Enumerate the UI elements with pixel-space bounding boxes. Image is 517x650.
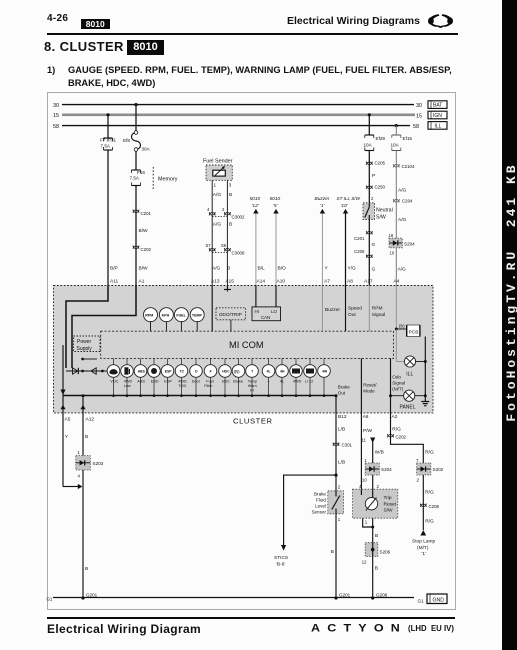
PCB box [407,325,420,337]
svg-text:ESP: ESP [164,380,172,384]
svg-text:L/B: L/B [338,460,345,466]
cluster box [54,286,434,413]
svg-text:A4: A4 [394,279,400,285]
warning lamp ABS [134,358,147,397]
svg-text:LI 12: LI 12 [305,380,313,384]
svg-text:(M/T): (M/T) [392,387,403,392]
svg-text:'B-6': 'B-6' [276,562,285,568]
svg-text:Memory: Memory [158,177,178,183]
wire A4 node b [395,286,407,331]
svg-text:C202: C202 [141,247,152,252]
svg-text:(M/T): (M/T) [417,545,429,551]
ref arrow 5010 '12' [250,196,266,286]
svg-text:P: P [372,173,375,179]
svg-text:B: B [85,434,88,440]
svg-text:5010: 5010 [270,196,281,202]
svg-text:Odo: Odo [392,375,401,380]
svg-text:CLUSTER: CLUSTER [233,417,273,426]
pin A5 [63,413,71,487]
wire A2 internal [389,358,405,413]
svg-text:G: G [372,242,376,248]
svg-text:1: 1 [214,183,217,188]
lamp ILL [396,329,425,378]
header page number [47,13,68,24]
description line 1 [47,65,55,75]
svg-text:R/G: R/G [392,427,401,433]
splice S204 lower [365,463,392,475]
svg-text:IGN: IGN [433,113,442,119]
svg-text:A/G: A/G [212,266,221,272]
svg-text:A12: A12 [86,417,95,423]
wire A11 internal [66,286,108,369]
wire from rail 30 to breaker Ef8 [134,103,137,133]
svg-text:B: B [229,222,232,228]
connector C2104 [393,164,415,169]
rail 58 [53,124,419,130]
svg-text:Supply: Supply [77,346,93,352]
svg-text:Out: Out [338,391,346,396]
svg-text:A14: A14 [257,279,266,285]
svg-text:Signal: Signal [392,381,405,386]
branch to STICS [274,474,338,568]
svg-text:Level: Level [315,504,326,509]
svg-text:'1': '1' [422,551,427,557]
regulator diode row [66,368,107,374]
svg-text:HDC: HDC [222,370,230,374]
warning lamp 4WD [290,358,303,397]
connector C204 [393,199,413,204]
svg-text:Sensor: Sensor [311,510,326,515]
svg-text:Y/G: Y/G [348,266,357,272]
svg-text:Temp: Temp [248,380,257,384]
power supply box [74,336,101,352]
svg-text:S202: S202 [433,467,444,472]
svg-text:7.5A: 7.5A [130,176,140,181]
svg-text:HDC: HDC [222,380,230,384]
svg-text:ABS: ABS [137,380,145,384]
svg-text:PCB: PCB [409,329,419,335]
svg-text:G1: G1 [418,598,425,603]
svg-text:B: B [375,566,378,572]
wire A6 internal [361,358,377,413]
svg-text:R/G: R/G [425,490,434,496]
svg-text:P/W: P/W [363,428,373,434]
splice S202 [417,463,444,475]
svg-text:R/G: R/G [425,450,434,456]
svg-text:18: 18 [389,233,394,238]
svg-text:7.5A: 7.5A [101,144,111,149]
svg-text:RPM: RPM [145,314,153,318]
svg-text:ST ILL S/W: ST ILL S/W [337,196,361,201]
svg-text:A/G: A/G [398,188,407,194]
ground G201 right [334,593,350,600]
svg-text:((!)): ((!)) [234,370,240,374]
svg-text:G201: G201 [86,593,98,598]
svg-text:C2104: C2104 [402,164,415,169]
svg-text:Reset: Reset [384,501,397,507]
svg-text:Buzzer: Buzzer [325,307,340,313]
svg-text:58: 58 [53,124,59,130]
header code box 8010 [81,19,110,30]
pin B12 [336,413,347,475]
CLUSTER label [233,417,273,426]
svg-text:BAT: BAT [433,103,442,109]
section title [44,39,124,54]
svg-text:ILL: ILL [435,123,442,129]
fuse Ef29 10A [364,135,386,151]
svg-text:C206: C206 [354,249,365,254]
svg-text:A6: A6 [363,414,369,420]
svg-text:CAN: CAN [261,315,270,320]
svg-text:Filter: Filter [204,384,213,388]
fuel sender box [206,165,232,180]
svg-text:GND: GND [433,597,445,603]
power supply stub [81,358,97,361]
svg-text:Brake: Brake [314,492,326,497]
svg-text:A2: A2 [392,414,398,420]
warning lamp VDC [107,358,120,397]
watermark strip [502,0,517,650]
connector C206 [354,249,372,258]
svg-text:Neutral: Neutral [376,208,393,214]
connector C205 [366,161,385,166]
svg-text:FUEL: FUEL [176,314,186,318]
svg-text:'12': '12' [252,203,260,209]
connector C3008 [206,243,245,256]
svg-text:A10: A10 [277,279,286,285]
wire B/W to pin A1 [136,186,148,286]
svg-text:C201: C201 [354,236,365,241]
svg-text:B/W: B/W [139,228,149,234]
wire from rail 15 to fuse F7 [106,113,109,137]
ground bus [47,596,415,601]
wire A2 to S202 [391,440,434,463]
wire neutral to cluster A17 [364,220,376,286]
warning lamp EBD [148,358,161,397]
BAT box [428,101,447,109]
svg-text:VDC: VDC [110,380,118,384]
wire A8 speed out internal [346,286,363,332]
svg-text:A5: A5 [65,417,71,423]
svg-text:15: 15 [416,113,422,119]
svg-text:S204: S204 [404,242,415,247]
svg-text:Door: Door [192,380,201,384]
connector C250 [366,185,385,190]
svg-text:Stop Lamp: Stop Lamp [412,539,436,545]
svg-text:30: 30 [416,103,422,109]
description line 2 [68,78,155,88]
svg-text:MI COM: MI COM [229,340,264,350]
ref arrow Buzzer '1' [315,196,331,286]
svg-text:B12: B12 [338,414,347,420]
svg-text:Ef15: Ef15 [403,136,413,141]
wire S204b to trip switch [362,475,373,489]
svg-text:4W: 4W [322,370,328,374]
svg-text:Mode: Mode [363,389,375,394]
connector C301 [333,443,353,448]
fuse F16 7.5A [130,170,146,186]
wire rail15 to fuse Ef29 [368,113,371,135]
svg-text:B: B [331,549,334,555]
svg-text:A7: A7 [324,279,330,285]
rail 15 [53,113,422,119]
wire A13 internal [211,286,213,332]
wire Ef29 to neutral switch [369,151,375,203]
svg-text:C208: C208 [429,504,440,509]
wire A17 rpm signal internal [369,286,385,332]
svg-text:G201: G201 [339,593,351,598]
svg-text:4L: 4L [280,380,284,384]
footer rule [47,617,455,619]
connector C201 lower [354,231,372,241]
wire brake sensor to ground [331,514,341,598]
ground G201 left [81,593,97,600]
connector C202 lower [388,434,407,440]
watermark text [505,162,517,422]
ODO TRIP box [216,308,246,331]
svg-text:ILL: ILL [406,372,413,378]
connector C201 on A1 wire [133,210,152,217]
svg-text:A/G: A/G [213,192,222,198]
svg-text:B: B [85,566,88,572]
svg-text:TEMP: TEMP [192,314,203,318]
svg-text:R/G: R/G [425,519,434,525]
svg-text:Fluid: Fluid [316,498,326,503]
ref arrow 11 into S204b [361,438,383,464]
svg-text:B/W: B/W [139,266,149,272]
svg-text:B: B [375,533,378,539]
svg-text:Warn: Warn [248,384,257,388]
svg-text:4H: 4H [280,370,285,374]
ssangyong logo [428,13,453,30]
svg-text:A13: A13 [211,279,220,285]
pin A2 [391,413,402,440]
svg-text:4WD: 4WD [178,380,187,384]
svg-text:4L: 4L [267,370,271,374]
svg-text:TC: TC [180,370,185,374]
connector C3002 [207,207,245,228]
svg-text:Fuel: Fuel [206,380,214,384]
circuit breaker Ef8 30A [123,131,151,152]
svg-text:RPM: RPM [372,306,383,312]
lamp bus [63,395,336,397]
gauge KPH [159,308,173,332]
svg-text:B/P: B/P [110,266,118,272]
svg-text:10A: 10A [391,143,400,148]
svg-text:S/W: S/W [376,215,386,221]
MICOM box [101,331,394,358]
svg-text:A/G: A/G [213,222,222,228]
svg-text:PANEL: PANEL [400,405,416,411]
svg-text:Low: Low [124,384,131,388]
svg-text:W/B: W/B [375,450,384,456]
warning lamp 4WD TOD [175,358,188,397]
ground G208 [371,593,388,600]
brake fluid level sensor [311,475,343,514]
svg-text:58: 58 [413,124,419,130]
gauge TEMP [190,308,204,332]
lamp PANEL [391,390,426,410]
warning lamp Door [190,358,203,397]
fuel sender pins [212,180,232,285]
ILL box [428,122,447,130]
pin A12 [78,413,95,456]
warning lamp 4WD LOW [121,358,134,397]
svg-text:S204: S204 [381,467,392,472]
diagram frame [48,93,456,610]
svg-text:Signal: Signal [372,312,385,318]
svg-text:10A: 10A [364,143,373,148]
svg-text:(b): (b) [399,324,405,329]
wire A12 entry arrow [80,394,85,413]
svg-text:G1: G1 [47,596,53,601]
svg-text:10: 10 [390,251,395,256]
svg-text:Trip: Trip [384,495,392,501]
svg-text:12: 12 [362,559,367,564]
svg-text:EBD: EBD [151,380,159,384]
fuel sender label [203,159,233,165]
svg-text:5010: 5010 [250,196,261,202]
CAN HI LO box [252,286,281,321]
svg-text:C301: C301 [342,443,353,448]
neutral switch [363,203,393,221]
rail 30 [53,103,422,109]
svg-text:A15: A15 [225,279,234,285]
header right title [287,15,420,27]
fuse F7 7.5A [100,138,117,151]
splice S206 [365,543,390,557]
wire A5 arrow [60,345,65,413]
svg-text:HI: HI [255,309,259,314]
svg-text:B/L: B/L [258,266,266,272]
wire S204 to cluster A4 [390,248,407,286]
splice S203 [76,456,104,470]
svg-text:Buzzer: Buzzer [315,196,330,202]
ground G1 GND box [418,594,448,604]
svg-text:C3008: C3008 [232,251,245,256]
svg-text:10: 10 [362,478,367,483]
svg-text:ABS: ABS [138,370,146,374]
wire B/P to pin A11 [108,150,119,286]
warning lamp LI 12 [304,358,317,397]
connector C202 on A1 wire [133,246,152,253]
svg-text:ESP: ESP [165,370,173,374]
svg-text:A1: A1 [139,279,145,285]
footer LHD EU IV [408,624,454,633]
svg-text:Brake: Brake [233,380,243,384]
svg-text:Ef29: Ef29 [376,136,386,141]
svg-text:3: 3 [229,183,232,188]
cluster internal ground [421,400,429,406]
wire A15 internal terminator [224,286,231,292]
svg-text:C204: C204 [402,199,413,204]
svg-text:G: G [372,267,376,273]
wire A5 to splice joint [63,484,82,489]
IGN box [428,111,447,119]
svg-text:A/G: A/G [398,267,407,273]
svg-text:Fuel Sender: Fuel Sender [203,159,233,165]
wire S206 to ground [362,557,378,599]
memory dashed note [153,167,178,190]
svg-text:Brake: Brake [338,385,350,390]
svg-text:C201: C201 [141,211,152,216]
fuse Ef15 10A [391,135,413,151]
splice S204 [389,238,415,248]
warning lamp + [262,358,275,397]
gauge FUEL [174,308,188,332]
svg-text:4WD: 4WD [293,380,302,384]
svg-text:C3002: C3002 [232,215,245,220]
fuel wire bottom labels [211,266,234,285]
wire Ef15 to S204 [389,151,407,239]
svg-text:KPH: KPH [162,314,170,318]
header rule [47,33,458,35]
stop lamp ref arrow [412,530,436,557]
connector C208 [420,504,439,510]
wire B12 drop [335,385,351,413]
svg-text:Speed: Speed [348,306,362,312]
svg-text:4WD: 4WD [124,380,133,384]
svg-text:11: 11 [361,438,366,443]
svg-text:B: B [229,192,232,198]
title code box 8010 [127,40,164,55]
svg-text:A11: A11 [110,279,119,285]
ref arrow 5010 '5' [270,196,287,286]
trip reset switch [353,484,398,518]
svg-text:S/W: S/W [384,508,394,514]
svg-text:F16: F16 [137,170,145,175]
svg-text:B/O: B/O [278,266,287,272]
svg-text:HI: HI [250,388,254,392]
svg-text:A8: A8 [347,279,353,285]
svg-text:S206: S206 [380,550,391,555]
svg-text:STICS: STICS [274,555,288,561]
svg-text:S6: S6 [221,243,227,248]
svg-text:LO: LO [271,309,277,314]
svg-text:S7: S7 [206,243,212,248]
svg-text:A/G: A/G [398,217,407,223]
svg-text:C205: C205 [375,161,386,166]
wire rail58 to fuse Ef15 [395,124,398,135]
warning lamp 4L [276,358,289,397]
svg-text:C202: C202 [396,435,407,440]
svg-text:15: 15 [53,113,59,119]
svg-text:Ef8: Ef8 [123,138,130,143]
wire A1 internal [72,286,136,369]
svg-text:ODO/TRIP: ODO/TRIP [219,312,242,318]
wire breaker to fuse F16 [135,151,137,170]
svg-text:30: 30 [53,103,59,109]
svg-text:C250: C250 [375,185,386,190]
warning lamp Fuel Filter [204,358,217,397]
right rail to ground [424,337,427,400]
footer left text [47,622,201,636]
svg-text:Power: Power [77,339,92,345]
ref arrow ST ILL S/W [337,196,361,286]
svg-text:S203: S203 [93,461,104,466]
svg-text:30A: 30A [142,147,151,152]
warning lamp ESP [161,358,174,397]
pin A6 [361,413,372,489]
svg-text:L/B: L/B [338,427,345,433]
wire A7 buzzer internal [322,286,340,332]
svg-text:TOD: TOD [178,384,186,388]
warning lamp HDC [219,358,232,397]
warning lamp spare [318,358,331,397]
svg-text:A17: A17 [364,279,373,285]
wire S202 to stop lamp [417,475,434,530]
wire S203 to ground [78,470,89,598]
